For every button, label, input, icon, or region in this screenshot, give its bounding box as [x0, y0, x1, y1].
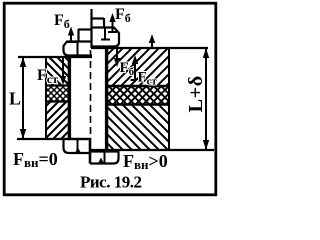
svg-text:Рис. 19.2: Рис. 19.2	[80, 173, 141, 192]
svg-text:L+δ: L+δ	[185, 75, 207, 112]
svg-text:L: L	[9, 89, 21, 109]
